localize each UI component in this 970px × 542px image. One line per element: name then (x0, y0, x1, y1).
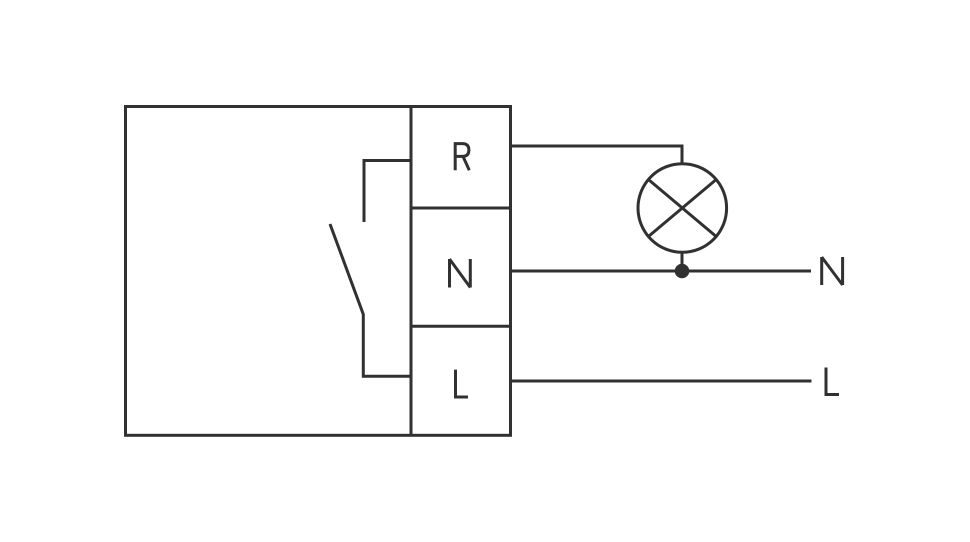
net label N (822, 257, 843, 285)
wire N terminal to N net (511, 270, 812, 273)
terminal divider R/N (411, 207, 511, 210)
terminal label L (456, 370, 469, 397)
terminal label N (450, 259, 471, 288)
net label L (826, 368, 839, 395)
enclosure box (device outline) (126, 107, 511, 436)
terminal label R (455, 144, 469, 171)
lamp E1 cross (648, 180, 716, 237)
wire L terminal to L net (511, 380, 812, 383)
wire lamp to N junction (681, 254, 684, 272)
switch S1 (relay contact) (330, 161, 411, 377)
wire R terminal to lamp (511, 146, 683, 165)
terminal divider N/L (411, 325, 511, 328)
lamp E1 circle (638, 164, 727, 253)
junction dot on N wire (675, 264, 690, 279)
terminal block left edge (410, 107, 413, 436)
